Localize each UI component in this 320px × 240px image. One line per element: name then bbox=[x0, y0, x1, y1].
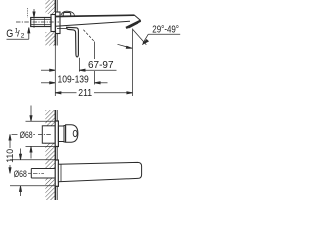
svg-text:109-139: 109-139 bbox=[58, 74, 89, 86]
svg-text:G: G bbox=[6, 28, 13, 40]
svg-text:Ø68: Ø68 bbox=[20, 130, 33, 141]
svg-text:29°-49°: 29°-49° bbox=[152, 23, 179, 35]
svg-text:Ø68: Ø68 bbox=[14, 169, 27, 180]
svg-text:67-97: 67-97 bbox=[88, 59, 114, 71]
svg-text:211: 211 bbox=[78, 87, 92, 99]
svg-text:2: 2 bbox=[21, 32, 25, 39]
svg-text:110: 110 bbox=[5, 149, 16, 163]
